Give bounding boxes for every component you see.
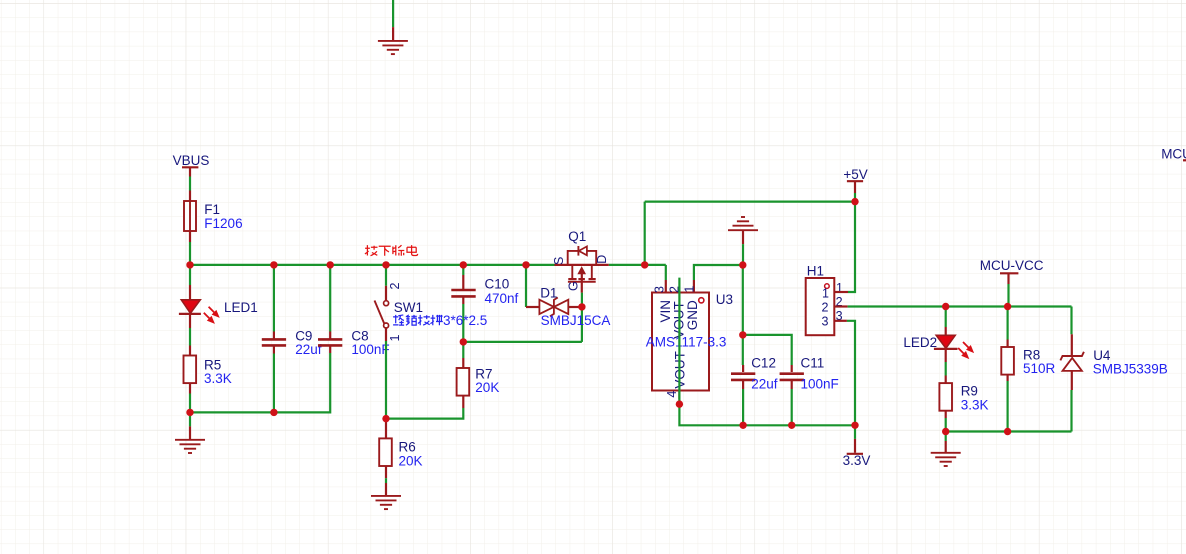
wire C10/D1 gate net — [463, 341, 582, 343]
wire H1 pin3 to 3.3V rail — [847, 321, 855, 426]
node 3.3V (net flag) — [843, 425, 871, 468]
wire pin4 node to bottom rail — [679, 404, 855, 425]
S-D path — [555, 264, 609, 266]
wire U3 pin2 through to pin4 — [678, 391, 680, 400]
svg-text:1: 1 — [683, 286, 697, 293]
svg-text:100nF: 100nF — [801, 376, 839, 391]
wire LED2 to R9 — [945, 362, 947, 376]
svg-text:D1: D1 — [540, 285, 557, 300]
ground (inverted, U3) — [728, 217, 758, 265]
svg-text:2: 2 — [822, 300, 829, 314]
node +5V junction — [851, 198, 858, 205]
ground (top, net GND) — [378, 0, 408, 54]
LED LED2 — [903, 307, 973, 363]
wire U3 GND riser — [693, 280, 695, 293]
wire — [385, 419, 387, 439]
wire — [1006, 307, 1008, 340]
svg-text:SMBJ15CA: SMBJ15CA — [541, 313, 611, 328]
resistor R7 — [457, 342, 500, 408]
svg-text:H1: H1 — [807, 263, 824, 278]
node gate junction — [578, 303, 585, 310]
svg-text:S: S — [552, 257, 566, 265]
wire — [945, 307, 947, 328]
wire bottom rail right — [946, 430, 1072, 432]
wire — [273, 265, 275, 332]
ground (LED1/R5) — [175, 440, 205, 453]
resistor R5 — [184, 356, 232, 386]
svg-text:3.3V: 3.3V — [843, 453, 871, 468]
svg-text:LED2: LED2 — [903, 335, 937, 350]
svg-text:LED1: LED1 — [224, 300, 258, 315]
node +5V (net flag) — [843, 167, 867, 202]
node VBUS (net flag) — [173, 153, 210, 176]
wire VBUS to F1 — [189, 177, 191, 191]
svg-text:Q1: Q1 — [568, 229, 586, 244]
resistor R9 — [939, 383, 988, 412]
wire bottom rail left — [190, 353, 330, 412]
svg-text:SMBJ5339B: SMBJ5339B — [1093, 362, 1168, 377]
svg-text:470nf: 470nf — [485, 291, 519, 306]
node MCU-VCC junctions — [942, 303, 949, 310]
svg-text:100nF: 100nF — [351, 342, 389, 357]
label 按下断电 (red annotation) — [365, 245, 418, 256]
ground (R6) — [371, 496, 401, 509]
wire — [189, 265, 191, 285]
fuse F1 — [184, 201, 243, 231]
svg-text:3.3K: 3.3K — [961, 397, 989, 412]
capacitor C12 — [731, 335, 778, 425]
svg-text:U3: U3 — [716, 292, 733, 307]
svg-text:1: 1 — [822, 286, 829, 300]
wire GND node down to C12 rail — [742, 265, 744, 335]
wire LED2 ground stub — [945, 432, 947, 442]
svg-text:SW1: SW1 — [394, 300, 423, 315]
wire — [462, 342, 464, 358]
transistor Q1 (PMOS) — [552, 229, 609, 292]
wire R6 to ground — [385, 466, 387, 478]
wire bottom rail SW1-R7 — [386, 408, 463, 419]
resistor R6 — [379, 419, 422, 469]
svg-text:C10: C10 — [485, 277, 510, 292]
connector H1 — [806, 263, 848, 335]
node C12 top junction — [739, 331, 746, 338]
node GND rail junctions — [186, 409, 193, 416]
svg-text:+5V: +5V — [843, 167, 867, 182]
label 轻触按键3*6*2.5 (blue value of SW1) — [393, 315, 443, 325]
ground (LED2/R9) — [931, 453, 961, 466]
wire R5 to bottom rail — [189, 383, 191, 393]
svg-text:3: 3 — [822, 314, 829, 328]
electrodes — [571, 265, 573, 279]
capacitor C8 — [318, 265, 390, 357]
wire H1 pin2 to MCU-VCC rail — [848, 305, 1072, 307]
capacitor C10 — [451, 265, 518, 342]
svg-text:GND: GND — [685, 300, 700, 330]
wire R9 to bottom rail — [945, 411, 947, 418]
svg-text:C11: C11 — [801, 356, 825, 371]
wire +5V horizontal — [645, 201, 855, 203]
body diode loop — [568, 251, 578, 265]
resistor R8 — [1001, 307, 1055, 432]
svg-text:20K: 20K — [399, 453, 423, 468]
diode U4 (zener SMBJ5339B) — [1060, 307, 1167, 432]
node VOUT junctions — [676, 400, 683, 407]
wire +5V riser — [644, 202, 646, 265]
svg-text:2: 2 — [388, 283, 402, 290]
wire to ground — [189, 412, 191, 426]
diode D1 (TVS) — [526, 285, 610, 328]
wire — [462, 265, 464, 275]
wire — [743, 335, 792, 365]
svg-text:G: G — [567, 281, 581, 291]
svg-text:4: 4 — [665, 391, 679, 398]
svg-text:3: 3 — [653, 286, 667, 293]
node VBUS_P junctions — [186, 261, 193, 268]
wire +5V down to H1 pin1 — [848, 202, 855, 292]
svg-text:VIN: VIN — [658, 300, 673, 323]
wire — [329, 265, 331, 332]
switch SW1 — [375, 265, 424, 419]
svg-text:F1206: F1206 — [204, 216, 242, 231]
svg-text:510R: 510R — [1023, 361, 1056, 376]
svg-text:VBUS: VBUS — [173, 153, 210, 168]
svg-text:3*6*2.5: 3*6*2.5 — [443, 313, 487, 328]
wire main rail VBUS_P — [190, 264, 555, 266]
capacitor C9 — [262, 265, 322, 413]
wire — [1070, 307, 1072, 335]
node MCU-VCC (net flag) — [980, 258, 1044, 306]
gate arrow — [578, 267, 585, 274]
svg-text:22uf: 22uf — [751, 376, 778, 391]
svg-text:MCU-VCC: MCU-VCC — [980, 258, 1044, 273]
node MCU (net flag, clipped at right edge) — [1161, 146, 1186, 161]
svg-text:D: D — [595, 255, 609, 264]
capacitor C11 — [743, 335, 839, 425]
wire F1 to rail — [189, 231, 191, 242]
wire — [392, 0, 394, 27]
wire D1 branch from rail — [525, 265, 527, 307]
wire LED1 to R5 — [189, 328, 191, 346]
wire U3 VIN riser — [665, 265, 667, 280]
svg-text:22uf: 22uf — [295, 342, 322, 357]
wire — [385, 265, 387, 286]
svg-text:C12: C12 — [751, 356, 776, 371]
svg-text:1: 1 — [388, 335, 402, 342]
svg-text:F1: F1 — [204, 202, 220, 217]
wire Q1 drain to +5V branch — [609, 264, 666, 266]
svg-text:AMS1117-3.3: AMS1117-3.3 — [646, 334, 727, 349]
svg-text:MCU-VCC: MCU-VCC — [1161, 146, 1186, 161]
wire — [742, 335, 744, 365]
svg-text:20K: 20K — [475, 380, 499, 395]
IC U3 AMS1117-3.3 — [646, 286, 733, 398]
LED LED1 — [179, 265, 258, 328]
svg-text:3.3K: 3.3K — [204, 371, 232, 386]
